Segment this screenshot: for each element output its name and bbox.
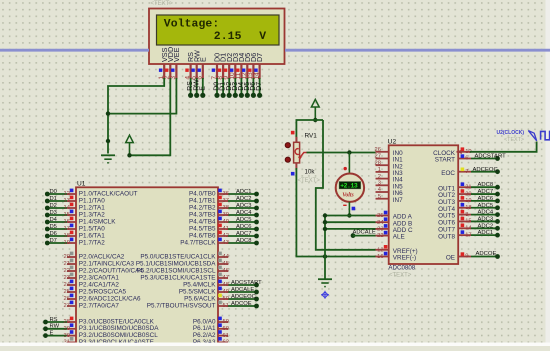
svg-text:P2.1/TAINCLK/CA3: P2.1/TAINCLK/CA3 <box>79 260 135 267</box>
U1 pin 61 P6.2 <box>218 335 228 337</box>
voltmeter negative lead <box>348 202 350 216</box>
svg-text:36: 36 <box>223 191 229 197</box>
U1 pin 37 P4.1 with terminal ADC2 <box>218 200 228 202</box>
RV1 wiper red lead <box>300 153 307 158</box>
svg-text:P1.5/TA0: P1.5/TA0 <box>79 225 105 232</box>
U1 pin 29 P3.1 with terminal RW <box>67 328 76 330</box>
U1 pin 12 P1.0 with terminal D0 <box>67 193 76 195</box>
svg-text:ADC1: ADC1 <box>478 230 494 236</box>
svg-text:17: 17 <box>465 232 471 238</box>
junction ground rail VREF- <box>323 254 327 258</box>
voltmeter display +2.13 <box>339 182 360 189</box>
U1 pin 59 P6.0 <box>218 321 228 323</box>
U1 pin 15 P1.3 with terminal D3 <box>67 214 76 216</box>
svg-text:7: 7 <box>465 169 468 175</box>
svg-text:18: 18 <box>64 233 70 239</box>
svg-text:D3: D3 <box>50 210 57 216</box>
power symbol above RV1 <box>311 99 319 107</box>
svg-text:D1: D1 <box>50 196 57 202</box>
svg-text:D0: D0 <box>50 189 57 195</box>
U1 pin 30 P3.2 with terminal E <box>67 335 76 337</box>
U1 pin 43 P4.7 with terminal ADC8 <box>218 242 228 244</box>
svg-text:39: 39 <box>223 212 229 218</box>
junction ADD A rail <box>323 213 327 217</box>
svg-text:OE: OE <box>446 255 455 262</box>
svg-text:ADCEOC: ADCEOC <box>473 167 499 173</box>
svg-text:<TEXT>: <TEXT> <box>504 137 524 143</box>
svg-text:P5.0/UCB1STE/UCA1CLK: P5.0/UCB1STE/UCA1CLK <box>140 253 216 260</box>
svg-text:P5.1/UCB1SIMO/UCB1SDA: P5.1/UCB1SIMO/UCB1SDA <box>136 260 216 267</box>
svg-text:EOC: EOC <box>441 170 455 177</box>
svg-text:15: 15 <box>465 219 471 225</box>
svg-text:20: 20 <box>64 254 70 260</box>
U1 pin 62 P6.3 <box>218 341 228 343</box>
U1 pin 19 P1.7 with terminal D7 <box>67 242 76 244</box>
U1 pin 26 P2.6 <box>67 298 76 300</box>
svg-text:25: 25 <box>64 289 70 295</box>
svg-text:ADCALE: ADCALE <box>353 229 376 235</box>
U2 pin 4 IN6 <box>376 191 389 193</box>
U1 pin 25 P2.5 <box>67 291 76 293</box>
svg-text:22: 22 <box>64 268 70 274</box>
svg-text:VEE: VEE <box>172 47 181 62</box>
svg-text:Voltage:: Voltage: <box>164 19 219 31</box>
svg-text:16: 16 <box>64 219 70 225</box>
svg-text:38: 38 <box>223 205 229 211</box>
U1 pin 18 P1.6 with terminal D6 <box>67 235 76 237</box>
svg-text:ADCEOC: ADCEOC <box>231 294 256 300</box>
ground origin marker <box>321 291 329 299</box>
U1 pin 63 P6.4 <box>218 348 228 350</box>
svg-text:P5.2/UCB1SOMI/UCB1SCL: P5.2/UCB1SOMI/UCB1SCL <box>137 267 216 274</box>
svg-text:ADC7: ADC7 <box>236 231 251 237</box>
svg-text:ADC3: ADC3 <box>236 203 251 209</box>
svg-text:ADC6: ADC6 <box>478 196 494 202</box>
svg-text:26: 26 <box>375 147 381 153</box>
wire RV1 wiper to IN0 <box>307 152 376 154</box>
U1 pin 41 P4.5 with terminal ADC6 <box>218 228 228 230</box>
svg-text:ADC5: ADC5 <box>236 217 251 223</box>
svg-text:P1.6/TA1: P1.6/TA1 <box>79 232 105 239</box>
svg-text:<TEXT>: <TEXT> <box>298 178 321 184</box>
wire and terminal for LCD RW <box>196 78 198 95</box>
wire and terminal for LCD D5 <box>246 78 248 95</box>
svg-text:19: 19 <box>465 198 471 204</box>
svg-text:OUT8: OUT8 <box>438 233 455 240</box>
svg-text:23: 23 <box>377 227 383 233</box>
wire LCD VSS to ground bus <box>108 78 164 154</box>
svg-text:P2.3/CA0/TA1: P2.3/CA0/TA1 <box>79 274 120 281</box>
U2 ADC0808 body <box>389 145 459 264</box>
wire and terminal for LCD RS <box>190 78 192 95</box>
svg-text:D2: D2 <box>50 203 57 209</box>
terminal ADCALE and wire to ALE <box>351 233 356 238</box>
U2 pin 3 IN5 <box>376 184 389 186</box>
svg-text:P4.5/TB5: P4.5/TB5 <box>189 225 216 232</box>
svg-text:ADC6: ADC6 <box>236 224 251 230</box>
svg-text:P5.4/MCLK: P5.4/MCLK <box>183 281 216 288</box>
U1 pin 47 P5.3 <box>218 277 228 279</box>
U1 pin 36 P4.0 with terminal ADC1 <box>218 193 228 195</box>
wire power junction to RV1 top <box>296 120 323 142</box>
U2 pin 1 IN3 <box>376 171 389 173</box>
voltmeter plus marker <box>344 167 347 170</box>
U2 pin 22 ALE <box>376 235 389 237</box>
svg-text:21: 21 <box>64 261 70 267</box>
svg-text:9: 9 <box>465 254 468 260</box>
U1 pin 45 P5.1 <box>218 263 228 265</box>
svg-text:40: 40 <box>223 219 229 225</box>
svg-text:E: E <box>199 86 206 91</box>
clock generator terminal triangle <box>528 131 536 141</box>
U1 pin 27 P2.7 <box>67 305 76 307</box>
svg-text:P2.7/TA0/CA7: P2.7/TA0/CA7 <box>79 302 120 309</box>
wire CLOCK to clock generator <box>470 142 537 152</box>
svg-text:P1.4/SMCLK: P1.4/SMCLK <box>79 218 116 225</box>
svg-text:P2.2/CAOUT/TA0/CA4: P2.2/CAOUT/TA0/CA4 <box>79 267 144 274</box>
ground symbol left <box>101 154 115 156</box>
junction power-RV1 <box>313 118 317 122</box>
RV1 wiper arrow curl <box>295 149 299 155</box>
voltmeter positive lead <box>348 153 350 175</box>
RV1 probe dot top <box>285 143 290 148</box>
svg-text:29: 29 <box>64 326 70 332</box>
svg-text:P4.4/TB4: P4.4/TB4 <box>189 218 216 225</box>
svg-text:+2.13: +2.13 <box>340 183 358 190</box>
svg-text:P5.6/ACLK: P5.6/ACLK <box>184 295 216 302</box>
svg-text:V: V <box>259 31 266 43</box>
svg-text:P4.2/TB2: P4.2/TB2 <box>189 204 216 211</box>
svg-text:P2.0/ACLK/CA2: P2.0/ACLK/CA2 <box>79 253 125 260</box>
RV1 probe dot bottom <box>285 157 290 162</box>
svg-text:60: 60 <box>223 326 229 332</box>
U1 pin 32 P3.4 <box>67 348 76 350</box>
svg-text:P5.7/TBOUTH/SVSOUT: P5.7/TBOUTH/SVSOUT <box>147 302 216 309</box>
wire and terminal for LCD E <box>202 78 204 95</box>
svg-text:D6: D6 <box>50 231 57 237</box>
svg-text:ADC7: ADC7 <box>478 189 494 195</box>
svg-text:12: 12 <box>377 247 383 253</box>
U1 pin 20 P2.0 <box>67 256 76 258</box>
svg-text:10k: 10k <box>305 169 316 176</box>
U2 pin 25 ADD A <box>376 215 389 217</box>
svg-text:48: 48 <box>223 282 229 288</box>
svg-text:22: 22 <box>377 233 383 239</box>
svg-text:49: 49 <box>223 289 229 295</box>
U1 pin 50 P5.6 with terminal ADCEOC <box>218 298 228 300</box>
U1 pin 42 P4.6 with terminal ADC7 <box>218 235 228 237</box>
svg-text:25: 25 <box>377 213 383 219</box>
U1 pin 46 P5.2 <box>218 270 228 272</box>
wire LCD VEE to ground bus <box>108 78 176 114</box>
clock generator square wave symbol <box>541 131 550 139</box>
right window margin <box>546 0 550 346</box>
U1 pin 38 P4.2 with terminal ADC3 <box>218 207 228 209</box>
svg-text:P1.3/TA2: P1.3/TA2 <box>79 211 105 218</box>
svg-text:5: 5 <box>378 194 381 200</box>
voltmeter minus marker <box>343 205 346 206</box>
U1 pin 40 P4.4 with terminal ADC5 <box>218 221 228 223</box>
svg-text:61: 61 <box>223 333 229 339</box>
junction on ground bus <box>106 139 110 143</box>
voltmeter logic square <box>352 207 356 211</box>
svg-text:ADC4: ADC4 <box>478 210 494 216</box>
svg-text:ADCOE: ADCOE <box>476 251 497 257</box>
potentiometer RV1 body <box>294 142 300 163</box>
svg-text:ADC8: ADC8 <box>478 182 494 188</box>
svg-text:P1.0/TACLK/CAOUT: P1.0/TACLK/CAOUT <box>79 190 138 197</box>
svg-text:43: 43 <box>223 240 229 246</box>
svg-text:P2.5/ROSC/CA5: P2.5/ROSC/CA5 <box>79 288 127 295</box>
svg-text:P1.1/TA0: P1.1/TA0 <box>79 197 105 204</box>
RV1 pin stubs <box>295 137 297 143</box>
svg-text:ADC1: ADC1 <box>236 189 251 195</box>
U2 pin 12 VREF(+) <box>376 249 389 251</box>
ground vertical rail <box>324 216 326 280</box>
svg-text:P1.2/TA1: P1.2/TA1 <box>79 204 105 211</box>
U2 pin 26 IN0 <box>376 151 389 153</box>
svg-text:P4.3/TB3: P4.3/TB3 <box>189 211 216 218</box>
svg-text:D7: D7 <box>256 82 263 91</box>
U1 pin 13 P1.1 with terminal D1 <box>67 200 76 202</box>
svg-text:24: 24 <box>64 282 71 288</box>
svg-text:50: 50 <box>223 296 229 302</box>
U1 pin 60 P6.1 <box>218 328 228 330</box>
svg-text:RV1: RV1 <box>305 133 318 140</box>
svg-text:27: 27 <box>375 154 381 160</box>
svg-text:44: 44 <box>223 254 230 260</box>
junction ADD C rail <box>323 227 327 231</box>
junction wiper-voltmeter <box>347 150 351 154</box>
svg-text:8: 8 <box>465 212 468 218</box>
U1 pin 17 P1.5 with terminal D5 <box>67 228 76 230</box>
svg-text:Volts: Volts <box>342 193 354 199</box>
svg-text:D7: D7 <box>50 238 57 244</box>
wire ADD C <box>325 228 376 230</box>
svg-text:1: 1 <box>378 167 381 173</box>
svg-text:U2(CLOCK): U2(CLOCK) <box>497 130 525 136</box>
U1 pin 31 P3.3 <box>67 341 76 343</box>
wire and terminal for LCD D7 <box>259 78 261 95</box>
svg-text:ALE: ALE <box>393 234 405 241</box>
svg-text:D5: D5 <box>50 224 57 230</box>
svg-text:ADC4: ADC4 <box>236 210 252 216</box>
wire VREF- rail <box>325 256 376 258</box>
junction VEE-ground bus <box>106 111 110 115</box>
svg-text:P4.7/TBCLK: P4.7/TBCLK <box>180 239 216 246</box>
svg-text:21: 21 <box>465 184 471 190</box>
svg-text:28: 28 <box>64 319 70 325</box>
RV1 logic square bottom <box>291 172 295 176</box>
svg-text:ADC5: ADC5 <box>478 203 494 209</box>
U2 pin 28 IN2 <box>376 164 389 166</box>
svg-text:13: 13 <box>64 198 70 204</box>
wire and terminal for LCD D2 <box>228 78 230 95</box>
U2 pin 24 ADD B <box>376 221 389 223</box>
U1 pin 22 P2.2 <box>67 270 76 272</box>
U2 pin 27 IN1 <box>376 158 389 160</box>
wire and terminal for LCD D6 <box>252 78 254 95</box>
wire and terminal for LCD D3 <box>234 78 236 95</box>
svg-text:14: 14 <box>64 205 71 211</box>
svg-text:P5.5/SMCLK: P5.5/SMCLK <box>179 288 216 295</box>
U1 pin 23 P2.3 <box>67 277 76 279</box>
svg-text:24: 24 <box>377 220 384 226</box>
bottom window margin <box>0 343 550 347</box>
wire and terminal for LCD D0 <box>216 78 218 95</box>
U1 MSP430 body <box>76 187 218 350</box>
svg-text:20: 20 <box>465 191 471 197</box>
svg-text:59: 59 <box>223 319 229 325</box>
svg-text:27: 27 <box>64 303 70 309</box>
svg-text:ADC3: ADC3 <box>478 216 494 222</box>
junction VDD-power <box>127 153 131 157</box>
svg-text:28: 28 <box>375 160 381 166</box>
svg-text:ADC2: ADC2 <box>236 196 251 202</box>
U1 pin 16 P1.4 with terminal D4 <box>67 221 76 223</box>
svg-text:23: 23 <box>64 275 70 281</box>
junction voltmeter minus to ADD A wire <box>347 213 351 217</box>
wire power feed down to VREF+ <box>316 120 376 250</box>
svg-text:37: 37 <box>223 198 229 204</box>
wire ADD A <box>325 215 376 217</box>
U2 pin 16 VREF(-) <box>376 256 389 258</box>
svg-text:42: 42 <box>223 233 229 239</box>
svg-text:P2.6/ADC12CLK/CA6: P2.6/ADC12CLK/CA6 <box>79 295 141 302</box>
svg-text:16: 16 <box>377 254 383 260</box>
svg-text:12: 12 <box>64 191 70 197</box>
svg-text:2.15: 2.15 <box>214 31 242 43</box>
svg-text:P1.7/TA2: P1.7/TA2 <box>79 239 105 246</box>
svg-text:IN7: IN7 <box>393 197 403 204</box>
wire RV1 bottom to ground rail <box>296 168 325 257</box>
svg-text:6: 6 <box>465 156 468 162</box>
svg-text:<TEXT>: <TEXT> <box>389 273 412 279</box>
blue bus wire from left edge to LCD <box>0 49 149 52</box>
LCD screen <box>157 15 280 45</box>
svg-text:P2.4/CA1/TA2: P2.4/CA1/TA2 <box>79 281 120 288</box>
svg-text:45: 45 <box>223 261 229 267</box>
wire and terminal for LCD D1 <box>222 78 224 95</box>
svg-text:P4.6/TB6: P4.6/TB6 <box>189 232 216 239</box>
svg-text:18: 18 <box>465 205 471 211</box>
svg-text:ADCSTART: ADCSTART <box>475 154 507 160</box>
svg-text:46: 46 <box>223 268 229 274</box>
svg-text:D4: D4 <box>50 217 58 223</box>
svg-text:RS: RS <box>50 317 58 323</box>
U2 pin 5 IN7 <box>376 198 389 200</box>
wire and terminal for LCD D4 <box>240 78 242 95</box>
svg-text:2: 2 <box>378 174 381 180</box>
svg-text:E: E <box>198 57 207 62</box>
U1 pin 39 P4.3 with terminal ADC4 <box>218 214 228 216</box>
voltmeter body <box>336 174 364 202</box>
svg-text:E: E <box>50 330 54 336</box>
U1 pin 21 P2.1 <box>67 263 76 265</box>
svg-text:P5.3/UCB1CLK/UCA1STE: P5.3/UCB1CLK/UCA1STE <box>140 274 215 281</box>
svg-text:ADCALE: ADCALE <box>231 287 254 293</box>
wire ADD B <box>325 221 376 223</box>
U1 pin 49 P5.5 with terminal ADCALE <box>218 291 228 293</box>
power symbol for LCD VDD <box>126 135 134 142</box>
svg-text:<TEXT>: <TEXT> <box>151 1 174 7</box>
U1 pin 44 P5.0 <box>218 256 228 258</box>
svg-text:26: 26 <box>64 296 70 302</box>
LCD module LCD1 body <box>149 9 285 65</box>
blue bus wire from LCD to right edge <box>285 49 550 52</box>
svg-text:ADCOE: ADCOE <box>231 301 252 307</box>
svg-text:30: 30 <box>64 333 70 339</box>
svg-text:47: 47 <box>223 275 229 281</box>
svg-text:P4.0/TB0: P4.0/TB0 <box>189 190 216 197</box>
svg-text:41: 41 <box>223 226 229 232</box>
svg-text:3: 3 <box>378 181 381 187</box>
U1 pin 28 P3.0 with terminal RS <box>67 321 76 323</box>
svg-text:P4.1/TB1: P4.1/TB1 <box>189 197 216 204</box>
svg-text:15: 15 <box>64 212 70 218</box>
svg-text:ADC0808: ADC0808 <box>388 265 415 272</box>
svg-text:ADC8: ADC8 <box>236 238 251 244</box>
wire LCD VDD to power <box>130 78 171 155</box>
svg-text:ADC2: ADC2 <box>478 223 494 229</box>
svg-text:51: 51 <box>223 303 229 309</box>
svg-text:RW: RW <box>50 324 60 330</box>
svg-text:VREF(-): VREF(-) <box>393 255 416 262</box>
U1 pin 24 P2.4 <box>67 284 76 286</box>
U1 pin 51 P5.7 with terminal ADCOE <box>218 305 228 307</box>
junction ADD B rail <box>323 220 327 224</box>
svg-text:17: 17 <box>64 226 70 232</box>
ground symbol middle <box>318 278 332 280</box>
svg-text:START: START <box>435 157 455 164</box>
RV1 logic square top <box>291 131 295 135</box>
svg-text:D7: D7 <box>255 53 264 62</box>
svg-text:ADCSTART: ADCSTART <box>231 280 262 286</box>
U2 pin 23 ADD C <box>376 228 389 230</box>
U1 pin 14 P1.2 with terminal D2 <box>67 207 76 209</box>
svg-text:19: 19 <box>64 240 70 246</box>
U1 pin 48 P5.4 with terminal ADCSTART <box>218 284 228 286</box>
U2 pin 2 IN4 <box>376 178 389 180</box>
